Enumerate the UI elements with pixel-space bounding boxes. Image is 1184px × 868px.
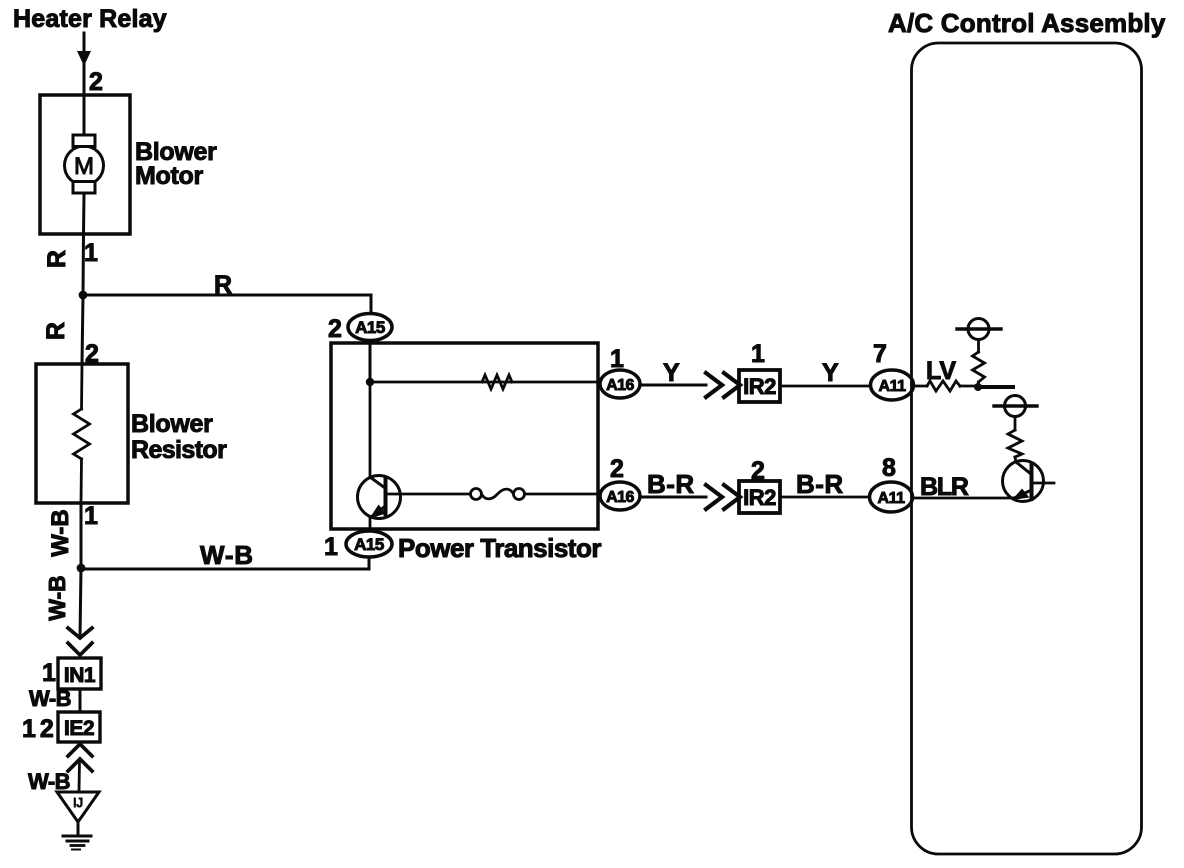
wire from heater relay down to blower motor	[83, 33, 86, 136]
svg-text:1: 1	[84, 502, 98, 530]
svg-text:B-R: B-R	[647, 469, 695, 499]
svg-text:W-B: W-B	[47, 509, 74, 557]
node B junction dot	[77, 564, 86, 573]
wire IR2 row1 to A11 pin7	[780, 385, 871, 388]
ground point triangle IJ	[57, 792, 99, 822]
svg-text:IN1: IN1	[64, 664, 96, 687]
transistor Q1 emitter with arrow	[371, 506, 386, 517]
wire junction A down to blower resistor	[82, 295, 83, 364]
wire triangle to ground	[77, 822, 80, 836]
transistor Q2 collector	[1016, 462, 1031, 474]
motor M1 circle	[65, 146, 104, 185]
connector IN1 box	[58, 658, 101, 689]
connector IR2 row1 box	[739, 370, 780, 402]
svg-text:12: 12	[22, 715, 58, 743]
transistor Q1 collector	[370, 477, 385, 488]
svg-text:W-B: W-B	[29, 686, 71, 711]
svg-text:A16: A16	[606, 489, 634, 506]
connector chevrons (up) below IE2	[68, 744, 92, 756]
connector chevrons row1	[706, 373, 722, 397]
transistor Q1 circle	[358, 476, 401, 519]
blower motor outline box	[40, 95, 130, 234]
svg-text:Y: Y	[663, 359, 680, 387]
svg-text:M: M	[74, 153, 94, 180]
svg-text:IJ: IJ	[73, 795, 83, 810]
svg-text:R: R	[214, 271, 232, 299]
wire inside blower resistor top	[80, 364, 83, 409]
wire IN1 to IE2	[79, 689, 82, 712]
connector A15 bottom ellipse	[346, 531, 392, 557]
blower resistor outline box	[36, 364, 128, 503]
svg-text:B-R: B-R	[796, 469, 844, 499]
resistor R2 zigzag inside power transistor	[482, 375, 512, 389]
transistor Q1 base bar	[384, 478, 388, 515]
node C junction dot	[366, 378, 374, 386]
power symbol 2 (circle with bar)	[1005, 396, 1026, 417]
connector A16 row2 ellipse	[600, 482, 640, 510]
node D junction dot	[974, 383, 982, 391]
svg-text:A11: A11	[879, 378, 907, 395]
resistor R3 zigzag (LV line)	[927, 381, 960, 391]
transistor Q2 base stub	[1034, 482, 1055, 485]
transistor Q2 circle	[1003, 461, 1044, 502]
svg-text:IE2: IE2	[64, 717, 94, 740]
wire resistor R5 to transistor Q2	[1015, 457, 1016, 462]
svg-text:IR2: IR2	[743, 374, 776, 399]
wire junction C down to transistor Q1	[369, 382, 372, 477]
wire fuse to A16 pin2	[525, 493, 601, 496]
svg-text:1: 1	[42, 659, 56, 687]
connector IE2 box	[58, 712, 100, 742]
wire Q1 emitter to A15 bottom	[369, 517, 372, 557]
svg-text:W-B: W-B	[44, 575, 70, 621]
connector A11 row1 ellipse	[871, 370, 914, 400]
svg-text:2: 2	[328, 315, 342, 343]
connector chevrons row2	[706, 485, 722, 509]
motor M1 top brush	[73, 135, 95, 147]
A/C control assembly outline	[912, 43, 1142, 854]
svg-text:A/C Control Assembly: A/C Control Assembly	[888, 8, 1166, 38]
wire blower resistor to junction B	[80, 503, 83, 568]
svg-text:Resistor: Resistor	[131, 436, 227, 464]
wire power symbol 2 to resistor R5	[1014, 417, 1017, 431]
wire junction C to A16 pin1	[370, 381, 600, 384]
node A junction dot	[79, 291, 88, 300]
svg-text:W-B: W-B	[28, 769, 70, 794]
wire A15 top through box to junction C	[369, 314, 372, 382]
svg-text:R: R	[43, 250, 71, 268]
resistor R5 vertical zigzag	[1008, 430, 1022, 457]
svg-text:Y: Y	[822, 359, 839, 387]
wire IR2 row2 to A11 pin8	[780, 496, 869, 499]
svg-text:Heater Relay: Heater Relay	[13, 5, 167, 33]
resistor R4 vertical zigzag above junction D	[973, 352, 985, 382]
wire LV resistor to junction D with stub	[960, 385, 978, 388]
svg-text:7: 7	[873, 340, 887, 368]
svg-text:Power Transistor: Power Transistor	[398, 533, 601, 563]
svg-text:Blower: Blower	[131, 410, 213, 438]
wire A11 pin8 to Q2 emitter (BLR)	[913, 497, 1013, 500]
power transistor outline box	[331, 343, 598, 529]
wire IE2 to ground point IJ	[78, 759, 81, 792]
svg-text:2: 2	[89, 68, 103, 96]
arrowhead on heater relay feed wire	[77, 51, 91, 66]
svg-text:1: 1	[751, 340, 765, 368]
svg-text:8: 8	[882, 454, 896, 482]
motor M1 bottom brush	[73, 182, 95, 194]
wire A11 pin7 into assembly (LV)	[913, 385, 927, 388]
ground symbol	[63, 835, 91, 838]
wire inside blower resistor bottom	[80, 459, 83, 503]
svg-text:A15: A15	[354, 535, 384, 554]
connector chevrons (down) above IN1	[68, 628, 92, 638]
connector A11 row2 ellipse	[870, 482, 913, 512]
wire junction B down to IN1 connector	[80, 568, 81, 638]
wire motor to junction A	[83, 193, 84, 295]
svg-text:IR2: IR2	[743, 485, 776, 510]
svg-text:A11: A11	[878, 490, 906, 507]
resistor R1 zigzag (blower resistor)	[74, 409, 90, 459]
svg-text:2: 2	[610, 455, 624, 483]
connector A15 top ellipse	[348, 314, 392, 341]
svg-text:1: 1	[324, 533, 338, 561]
connector IR2 row2 box	[739, 481, 780, 513]
svg-text:A15: A15	[355, 318, 385, 337]
transistor Q2 base bar	[1030, 464, 1034, 499]
wire junction A to power transistor connector (horizontal R wire)	[83, 295, 371, 314]
svg-text:W-B: W-B	[200, 540, 254, 570]
svg-text:A16: A16	[606, 377, 634, 394]
wire power symbol 1 to resistor R4	[977, 340, 980, 353]
wire A16 pin1 to chevrons	[640, 384, 706, 387]
wire Q1 base to fuse	[387, 493, 470, 496]
wire A16 pin2 to chevrons	[640, 496, 706, 499]
svg-text:BLR: BLR	[920, 473, 969, 501]
svg-text:R: R	[42, 322, 70, 340]
wire junction B to power transistor pin1 (horizontal W-B wire)	[81, 557, 369, 569]
connector A16 row1 ellipse	[600, 370, 640, 398]
power symbol 1 (circle with bar)	[968, 319, 989, 340]
svg-text:Motor: Motor	[135, 162, 203, 190]
svg-text:1: 1	[84, 239, 98, 267]
fuse F1 (thermal fuse)	[471, 489, 482, 500]
transistor Q2 emitter with arrow	[1013, 490, 1032, 499]
